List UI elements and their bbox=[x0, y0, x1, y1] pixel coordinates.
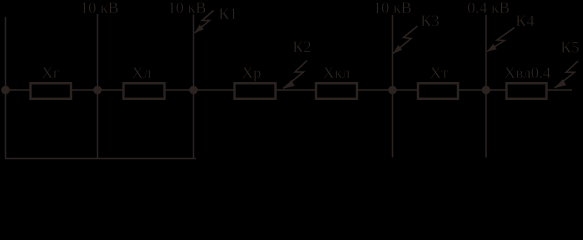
resistor Xl bbox=[124, 83, 165, 99]
svg-text:10 кВ: 10 кВ bbox=[373, 0, 411, 17]
node dot at V2/bus bbox=[93, 86, 102, 95]
svg-text:К1: К1 bbox=[219, 6, 238, 23]
resistor Xvl04 bbox=[507, 83, 547, 99]
wire main bus horizontal bbox=[6, 89, 573, 91]
wire V3 vertical 10 kV (K1 bus) bbox=[193, 15, 195, 159]
resistor Xr bbox=[235, 83, 276, 99]
wire V4 vertical 10 kV (K3 bus) bbox=[392, 15, 394, 158]
node dot at V1/bus bbox=[1, 86, 10, 95]
svg-text:Хвл0.4: Хвл0.4 bbox=[504, 65, 551, 82]
svg-text:0.4 кВ: 0.4 кВ bbox=[467, 0, 509, 17]
svg-text:Хт: Хт bbox=[430, 65, 449, 82]
svg-text:К4: К4 bbox=[516, 13, 535, 30]
svg-text:Хр: Хр bbox=[242, 65, 262, 82]
svg-text:Хл: Хл bbox=[132, 65, 152, 82]
svg-text:К2: К2 bbox=[293, 39, 312, 56]
fault arrow K1 bbox=[195, 11, 214, 34]
node dot at V4/bus bbox=[388, 86, 397, 95]
wire V2 vertical 10 kV bbox=[97, 14, 99, 159]
fault arrow K3 bbox=[393, 26, 418, 54]
node dot at V5/bus bbox=[482, 86, 491, 95]
svg-text:К5: К5 bbox=[561, 40, 580, 57]
fault arrow K4 bbox=[487, 28, 515, 52]
node dot at V3/bus bbox=[189, 86, 198, 95]
svg-text:Хг: Хг bbox=[41, 65, 60, 82]
resistor Xg bbox=[31, 83, 72, 99]
wire V5 vertical 0.4 kV (K4 bus) bbox=[485, 15, 487, 158]
svg-text:К3: К3 bbox=[421, 13, 440, 30]
resistor Xkl bbox=[316, 83, 357, 99]
svg-text:10 кВ: 10 кВ bbox=[80, 0, 118, 17]
wire bottom rail bbox=[5, 158, 196, 160]
svg-text:Хкл: Хкл bbox=[323, 65, 350, 82]
fault arrow K2 bbox=[283, 61, 307, 89]
svg-text:10 кВ: 10 кВ bbox=[168, 0, 206, 17]
fault arrow K5 bbox=[555, 61, 579, 88]
wire V1 left feeder vertical bbox=[5, 17, 7, 159]
resistor Xt bbox=[418, 83, 458, 99]
